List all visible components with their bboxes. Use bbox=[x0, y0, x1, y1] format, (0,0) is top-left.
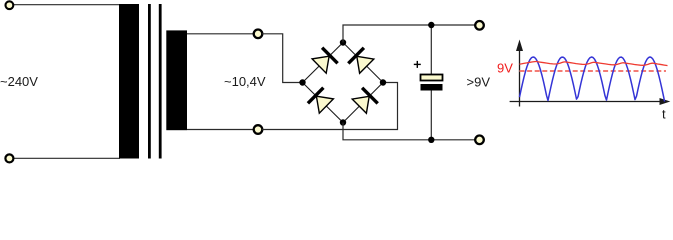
bridge diamond wire bottom-left bbox=[303, 83, 344, 123]
transformer secondary winding bbox=[166, 30, 187, 130]
wire secondary bottom bbox=[187, 129, 258, 131]
red smoothed output curve bbox=[520, 62, 668, 66]
capacitor plus sign bbox=[414, 61, 421, 68]
terminal primary top bbox=[5, 1, 13, 9]
junction capacitor bottom bbox=[428, 137, 434, 143]
diode top-left bbox=[312, 48, 338, 73]
transformer core bbox=[149, 4, 160, 159]
svg-text:~10,4V: ~10,4V bbox=[224, 74, 266, 89]
terminal output positive bbox=[475, 21, 484, 30]
capacitor negative plate bbox=[421, 84, 443, 91]
terminal secondary top bbox=[254, 30, 263, 39]
wire capacitor branch top bbox=[430, 25, 432, 75]
blue rectified waveform bbox=[520, 57, 665, 102]
svg-text:>9V: >9V bbox=[467, 75, 491, 90]
diode bottom-right bbox=[352, 88, 378, 114]
bridge diamond wire right-bottom bbox=[343, 83, 383, 123]
node bridge top bbox=[340, 39, 346, 45]
terminal output negative bbox=[475, 136, 484, 145]
terminal primary bottom bbox=[5, 154, 13, 162]
bridge diamond wire top-right bbox=[343, 43, 383, 83]
wire secondary top terminal to bridge left node bbox=[262, 34, 303, 83]
wire capacitor branch bottom bbox=[430, 91, 432, 140]
capacitor positive plate bbox=[421, 75, 443, 81]
svg-text:t: t bbox=[662, 107, 666, 122]
wire secondary bottom terminal to bridge right node bbox=[262, 83, 398, 130]
bridge diamond wire left-top bbox=[303, 43, 344, 83]
node bridge left bbox=[299, 79, 305, 85]
red dashed 9V level line bbox=[520, 70, 667, 72]
diode bottom-left bbox=[308, 88, 334, 114]
wire bottom node to negative rail bbox=[343, 123, 475, 140]
node bridge bottom bbox=[340, 119, 346, 125]
wire primary top bbox=[9, 4, 120, 6]
wire top node to positive rail bbox=[343, 25, 475, 43]
wire secondary top bbox=[187, 33, 258, 35]
junction capacitor top bbox=[428, 22, 434, 28]
diode top-right bbox=[348, 48, 374, 74]
terminal secondary bottom bbox=[254, 125, 263, 134]
node bridge right bbox=[380, 79, 386, 85]
graph y axis bbox=[516, 40, 523, 107]
svg-text:~240V: ~240V bbox=[0, 74, 38, 89]
wire primary bottom bbox=[9, 157, 120, 159]
svg-text:9V: 9V bbox=[497, 61, 513, 76]
transformer primary winding bbox=[119, 4, 139, 159]
graph x axis bbox=[510, 98, 671, 105]
